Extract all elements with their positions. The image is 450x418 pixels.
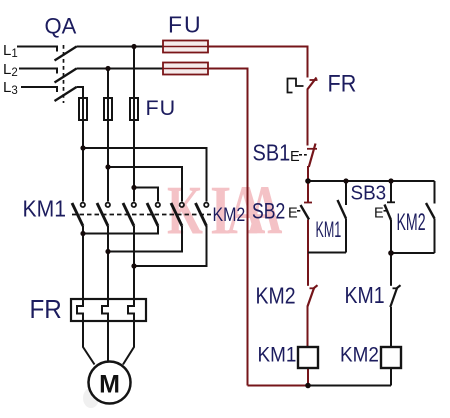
fuse FU2: [163, 63, 208, 75]
svg-text:SB1: SB1: [253, 139, 291, 166]
button SB2 upper wire: [307, 181, 309, 202]
svg-text:KM1: KM1: [345, 281, 385, 308]
contactor KM2 main contact1: [156, 203, 160, 207]
svg-text:KM2: KM2: [340, 344, 379, 367]
svg-text:E: E: [374, 206, 384, 222]
wire bottom rail black: [308, 385, 391, 387]
switch QA linkage dashed: [63, 45, 65, 103]
contact KM1 aux upper wire: [345, 181, 347, 205]
wire KM2NC to coil KM1: [307, 307, 309, 347]
motor shadow: [83, 388, 99, 408]
contact FR NC bar: [310, 79, 318, 81]
SB1 actuator dashes: [299, 154, 307, 156]
fuse FU1: [163, 41, 208, 53]
wire SB3 bottom: [390, 220, 392, 253]
svg-text:E: E: [290, 149, 300, 165]
wire fuse FU2 to left rail: [208, 69, 248, 386]
button SB3 bar: [387, 201, 395, 203]
wire bottom rail maroon: [248, 385, 309, 387]
svg-text:KM2: KM2: [213, 204, 246, 226]
button SB2 bar: [304, 202, 312, 204]
svg-text:KM1: KM1: [258, 344, 297, 367]
wire column3 phase L1 down through fuse: [133, 47, 135, 202]
wire SB3 to KM1NC: [390, 253, 392, 286]
wire FR to motor left: [83, 321, 95, 365]
contact FR NC blade: [307, 78, 316, 90]
wire KM2 c3 bottom crossover to col3: [134, 226, 207, 266]
junction KM2c3 bottom: [131, 263, 136, 268]
svg-text:KM1: KM1: [316, 217, 342, 242]
svg-text:KM1: KM1: [23, 196, 66, 222]
node L2 terminal wire: [19, 69, 57, 74]
button SB1 bar: [307, 148, 317, 150]
coil KM2 box: [381, 347, 401, 368]
svg-text:FR: FR: [30, 295, 62, 324]
node L1 terminal wire: [17, 47, 57, 52]
contactor KM2 main contact2: [180, 203, 184, 207]
wire column1 phase L3 down through fuse: [82, 98, 84, 202]
switch QA blade pole2: [55, 69, 77, 83]
wire column2 phase L2 down through fuse: [107, 69, 109, 202]
svg-text:KM2: KM2: [256, 282, 296, 309]
thermal relay FR heater element2: [102, 299, 108, 321]
wire KM2 c1 bottom crossover to col1: [83, 226, 158, 234]
contact KM2 aux blade: [426, 203, 435, 219]
svg-text:QA: QA: [45, 14, 77, 39]
SB3 actuator dash: [384, 210, 387, 212]
wire L3 to column1: [77, 87, 84, 98]
wire SB3 KM2aux join: [391, 252, 435, 254]
junction node A: [305, 178, 311, 184]
contact KM2 NC bar: [310, 287, 316, 289]
thermal relay FR trip symbol: [288, 79, 304, 93]
wire SB2 bottom down: [307, 220, 309, 253]
wire KM2 aux bottom: [434, 219, 436, 254]
svg-text:M: M: [99, 371, 120, 399]
wire fuse FU1 to right rail: [208, 47, 308, 78]
wire SB1 to node A: [307, 166, 309, 181]
wire node A branch: [308, 180, 435, 182]
wire KM1 c3 down to FR: [133, 226, 135, 299]
wire KM2 c2 bottom crossover to col2: [108, 226, 182, 252]
junction col2 row2: [105, 66, 110, 71]
contact KM1 NC bar: [393, 287, 399, 289]
wire branch col2 to KM2 contact2: [108, 167, 182, 202]
contact KM1 aux blade: [338, 200, 347, 219]
main contacts linkage dashed: [72, 214, 211, 216]
contact KM2 aux upper wire: [434, 181, 436, 204]
thermal relay FR box: [71, 299, 146, 321]
wire KM1 aux bottom: [345, 219, 347, 253]
svg-text:KM2: KM2: [397, 209, 426, 236]
wire FR to motor middle: [107, 321, 109, 362]
wire KM1 c2 down to FR: [107, 226, 109, 299]
button SB2 blade: [301, 205, 310, 220]
switch QA blade pole3: [55, 87, 77, 101]
junction col1 branch: [80, 145, 85, 150]
svg-text:SB2: SB2: [252, 200, 285, 224]
junction SB3 top: [388, 178, 393, 183]
junction KM2c1 bottom: [80, 231, 85, 236]
button SB1 blade: [309, 144, 316, 168]
svg-text:SB3: SB3: [351, 182, 387, 205]
wire SB2 KM1aux join: [308, 252, 346, 254]
contact KM2 NC blade: [307, 285, 317, 307]
wire coil KM1 to bottom rail: [307, 368, 309, 386]
junction KM2c2 bottom: [105, 249, 110, 254]
wire row L1 to fuse FU1: [77, 46, 164, 48]
contactor KM1 main contact2: [106, 203, 110, 207]
wire FR to motor right: [123, 321, 134, 365]
wire row L2 to fuse FU2: [77, 68, 164, 70]
wire SB2 KM2NC rail: [307, 253, 309, 286]
fuse FU vertical 3: [130, 98, 138, 120]
junction SB3 bottom: [388, 250, 394, 256]
contactor KM1 main contact3: [132, 203, 136, 207]
contactor KM2 main contact3: [204, 203, 208, 207]
thermal relay FR heater element1: [77, 299, 83, 321]
node L3 terminal wire: [21, 87, 57, 92]
wire coil KM2 to bottom rail: [390, 368, 392, 386]
fuse FU vertical 2: [104, 98, 112, 120]
svg-text:FU: FU: [146, 96, 177, 120]
junction col3 row1: [131, 44, 136, 49]
wire branch col1 to KM2 contact3: [83, 148, 207, 202]
junction KM1aux top: [343, 178, 348, 183]
contactor KM1 main contact1: [81, 203, 85, 207]
junction col2 branch: [105, 164, 110, 169]
thermal relay FR heater element3: [128, 299, 134, 321]
SB2 actuator dash: [297, 210, 300, 212]
button SB3 blade: [385, 205, 392, 221]
switch QA blade pole1: [55, 47, 77, 61]
coil KM1 box: [298, 347, 318, 368]
wire FR contact to SB1: [307, 89, 309, 146]
svg-text:FR: FR: [328, 69, 357, 96]
svg-text:FU: FU: [168, 12, 203, 38]
motor M circle: [89, 362, 131, 404]
button SB3 upper wire: [390, 181, 392, 202]
fuse FU vertical 1: [79, 98, 87, 120]
junction bottom rail: [305, 383, 311, 389]
svg-text:E: E: [288, 206, 298, 222]
junction col3 branch: [131, 185, 136, 190]
wire KM1 c1 down to FR: [82, 226, 84, 299]
wire branch col3 to KM2 contact1: [134, 188, 158, 202]
wire KM1NC to coil KM2: [390, 307, 392, 347]
contact KM1 NC blade: [390, 285, 400, 307]
